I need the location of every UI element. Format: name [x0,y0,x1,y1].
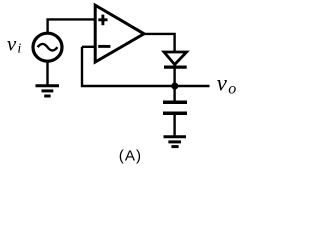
voltage source Vi (AC sine source) [33,33,62,61]
wire from source top to op-amp noninverting input [48,19,96,33]
diode (anode top, cathode bottom) [164,52,187,65]
wire from source bottom to ground [46,62,48,86]
ground (below source) [36,86,60,96]
wire feedback from output node to inverting input [82,47,175,86]
wire diode cathode to capacitor top [173,67,175,101]
wire capacitor bottom to ground [173,114,175,136]
op-amp plus input marking [98,15,107,26]
capacitor [163,102,187,113]
wire node to vo terminal [175,85,210,87]
ground (below capacitor) [164,137,187,147]
wire inverting input stub [82,46,95,48]
svg-text:vo: vo [217,71,237,98]
op-amp [95,5,144,62]
wire op-amp output to diode anode [143,34,175,52]
svg-text:vi: vi [7,31,22,56]
svg-text:(A): (A) [119,147,142,164]
node vo junction dot [171,83,178,90]
op-amp minus input marking [98,45,110,48]
